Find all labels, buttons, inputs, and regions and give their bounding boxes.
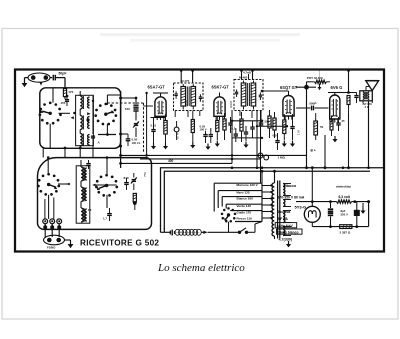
svg-text:Rosso 110: Rosso 110: [237, 217, 253, 221]
svg-text:500P: 500P: [309, 101, 316, 105]
svg-text:455: 455: [61, 101, 66, 105]
svg-text:2 387 Ω: 2 387 Ω: [340, 230, 351, 234]
svg-text:1,7: 1,7: [103, 217, 107, 221]
svg-text:400: 400: [168, 159, 174, 163]
svg-text:0.05: 0.05: [132, 138, 138, 142]
svg-text:50: 50: [320, 125, 324, 129]
svg-text:1 MΩ: 1 MΩ: [278, 156, 286, 160]
svg-text:4,7(330): 4,7(330): [279, 238, 293, 242]
svg-text:100 V.L: 100 V.L: [132, 141, 142, 145]
svg-text:6SQ7 GT: 6SQ7 GT: [280, 85, 298, 90]
svg-text:Marrone 130 V: Marrone 130 V: [237, 183, 259, 187]
svg-text:Salto 6 kV: Salto 6 kV: [277, 224, 294, 228]
svg-text:6V6 G: 6V6 G: [331, 85, 343, 90]
svg-text:6SK7-GT: 6SK7-GT: [212, 84, 230, 89]
svg-text:B +: B +: [311, 149, 316, 153]
svg-text:BF 6A: BF 6A: [278, 217, 289, 221]
svg-text:10000: 10000: [184, 100, 188, 108]
svg-text:Lo schema elettrico: Lo schema elettrico: [157, 262, 245, 274]
svg-text:Bianco 160: Bianco 160: [237, 196, 254, 200]
svg-text:25: 25: [342, 119, 346, 123]
svg-text:POT. M 400: POT. M 400: [307, 76, 323, 80]
svg-text:RICEVITORE G 502: RICEVITORE G 502: [80, 238, 159, 247]
svg-text:30000: 30000: [229, 100, 233, 108]
svg-text:Nero 125: Nero 125: [237, 190, 250, 194]
svg-text:540: 540: [125, 107, 130, 111]
svg-text:750: 750: [143, 172, 147, 177]
svg-text:1 M: 1 M: [297, 130, 301, 135]
svg-text:Accesa: Accesa: [278, 210, 292, 214]
svg-text:M 465: M 465: [239, 75, 248, 79]
svg-text:Attacco: Attacco: [283, 184, 297, 188]
svg-text:170: 170: [68, 90, 73, 94]
svg-text:6SA7-GT: 6SA7-GT: [148, 85, 166, 90]
svg-text:Giallo 175: Giallo 175: [237, 210, 252, 214]
svg-text:0.01: 0.01: [273, 133, 279, 137]
svg-text:50pF: 50pF: [59, 72, 67, 76]
svg-text:5Y3-G: 5Y3-G: [295, 204, 307, 209]
svg-text:Giallo bianco: Giallo bianco: [278, 230, 299, 234]
svg-text:FONO: FONO: [47, 246, 56, 250]
svg-text:F3: F3: [88, 208, 92, 212]
svg-text:350 V: 350 V: [341, 213, 348, 217]
svg-text:6,3 volt: 6,3 volt: [339, 195, 351, 199]
svg-text:4,7nB: 4,7nB: [243, 71, 251, 75]
svg-text:Verde 140: Verde 140: [237, 204, 252, 208]
svg-text:M 470: M 470: [181, 79, 190, 83]
svg-text:370-350 V 80 mA: 370-350 V 80 mA: [278, 196, 305, 200]
svg-text:elettrolitici: elettrolitici: [336, 184, 351, 188]
